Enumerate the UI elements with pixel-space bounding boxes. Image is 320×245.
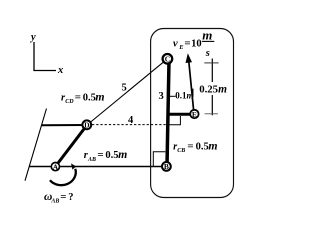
velocity arrow vE head: [186, 53, 193, 63]
fixed incline wall: [25, 109, 47, 181]
svg-text:5: 5: [122, 83, 127, 94]
velocity arrow vE shaft: [189, 63, 194, 113]
omega curved arrow arc: [50, 169, 76, 185]
lower guide link from wall through A to B: [29, 166, 166, 168]
pin joint B: [162, 162, 171, 171]
svg-text:B: B: [164, 162, 169, 171]
pin joint E: [190, 110, 198, 118]
link AD: [55, 125, 87, 167]
dashed horizontal leg (4) from D to bar CB: [92, 124, 168, 126]
link bar CB: [167, 61, 169, 166]
pin joint D: [82, 120, 91, 129]
svg-text:C: C: [165, 55, 170, 64]
svg-text:E: E: [192, 110, 197, 119]
svg-text:rCD=0.5m: rCD=0.5m: [61, 89, 105, 105]
svg-text:y: y: [29, 32, 36, 43]
0.1m dimension right tick: [192, 89, 194, 98]
svg-text:4: 4: [128, 115, 134, 126]
svg-text:ωAB=?: ωAB=?: [44, 191, 74, 204]
omega curved arrow head: [71, 163, 76, 169]
svg-text:rAB=0.5m: rAB=0.5m: [84, 147, 127, 163]
svg-text:3: 3: [159, 91, 164, 102]
svg-text:A: A: [53, 162, 59, 171]
svg-text:D: D: [84, 121, 90, 130]
link DC (hypotenuse, slope 5): [87, 59, 167, 125]
svg-text:0.25m: 0.25m: [199, 83, 227, 95]
svg-text:s: s: [205, 48, 210, 59]
0.1m dimension left tick: [170, 95, 176, 97]
bracket link from bar CB to E: [167, 113, 194, 116]
0.25m dimension top tick: [204, 62, 218, 64]
0.25m dimension line upper segment: [211, 59, 213, 83]
pin joint C: [163, 54, 173, 64]
pin joint A: [51, 163, 59, 171]
fraction bar: [202, 40, 214, 42]
svg-text:x: x: [57, 65, 63, 76]
svg-text:rCB=0.5m: rCB=0.5m: [173, 138, 217, 154]
svg-text:vE=10: vE=10: [173, 38, 202, 51]
upper guide link from wall to D: [42, 124, 87, 126]
right-angle marker at E bracket: [169, 116, 180, 125]
coordinate axes x-y: [34, 42, 56, 71]
right-angle marker at B: [153, 152, 165, 167]
rounded rectangle slider guide frame: [151, 29, 234, 198]
svg-text:0.1m: 0.1m: [175, 91, 193, 101]
0.25m dimension bottom tick: [205, 113, 218, 115]
svg-text:m: m: [202, 28, 212, 43]
0.25m dimension line lower segment: [211, 95, 213, 115]
